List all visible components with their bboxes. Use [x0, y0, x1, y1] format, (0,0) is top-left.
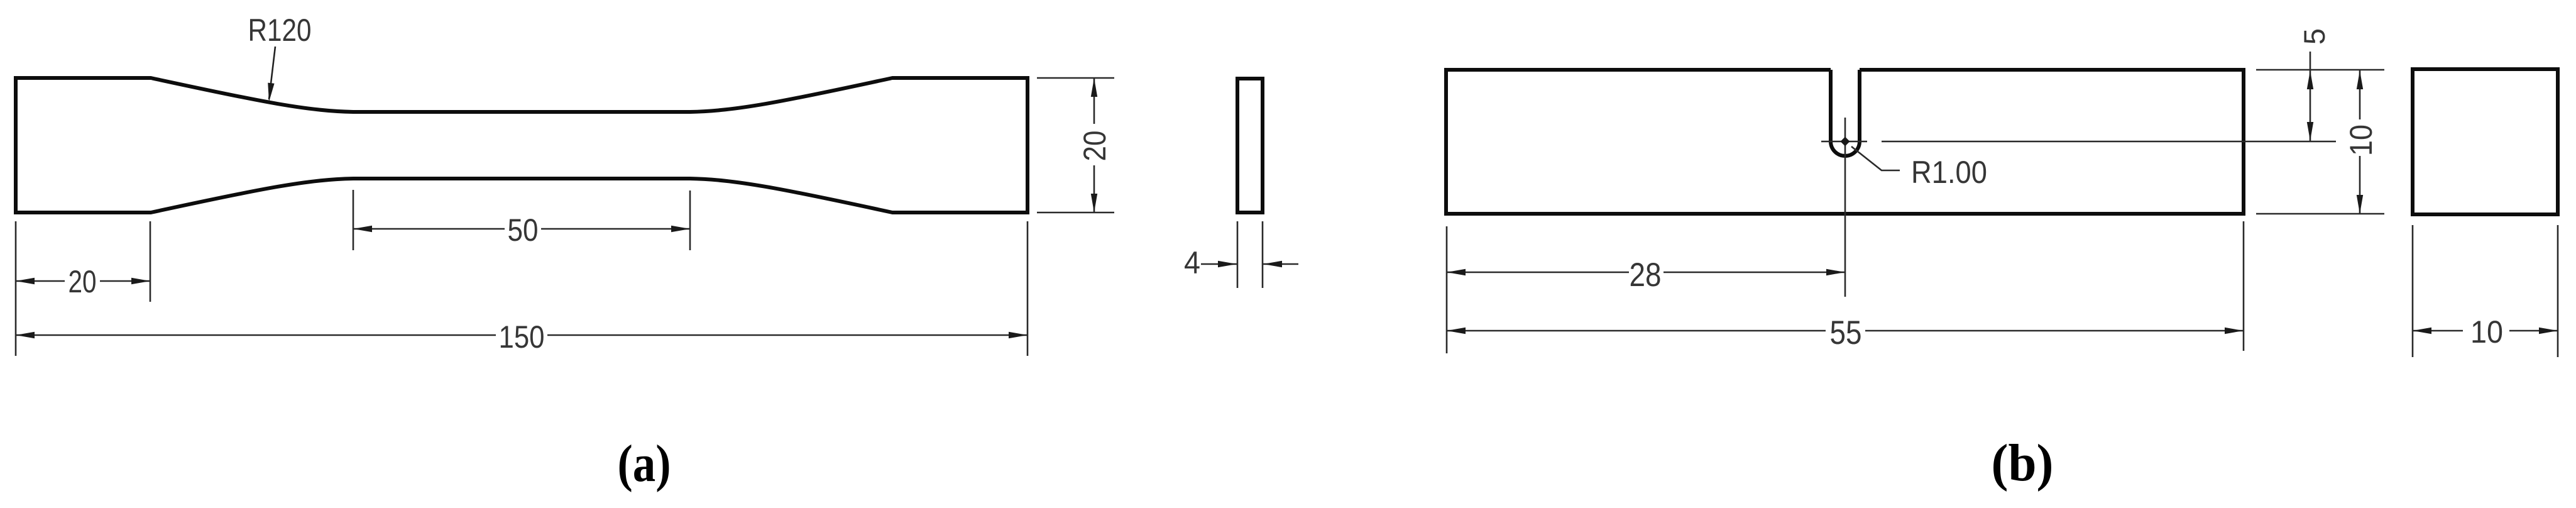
notch crosshair horizontal: [1821, 141, 1867, 143]
extension line left of specimen a: [15, 221, 17, 356]
R120 leader arrowhead: [266, 83, 275, 102]
dimension 150 line segments: [16, 334, 1028, 336]
main outline with notch gap: [1446, 70, 2244, 214]
svg-text:R1.00: R1.00: [1911, 155, 1987, 190]
dimension 10 arrowheads: [2357, 70, 2363, 89]
extension line bottom right of b: [2256, 213, 2384, 215]
dimension 20 line segments: [16, 280, 150, 282]
dimension 50 arrowheads: [353, 226, 372, 232]
side view right extension line: [1262, 221, 1264, 288]
svg-text:10: 10: [2343, 124, 2379, 156]
svg-text:5: 5: [2298, 28, 2331, 45]
dimension 50 line segments: [353, 228, 690, 230]
svg-text:4: 4: [1184, 245, 1200, 280]
svg-text:10: 10: [2470, 314, 2503, 350]
extension line at grip end x=239: [150, 221, 151, 302]
svg-text:(a): (a): [618, 434, 671, 493]
extension line left of b: [1446, 226, 1448, 353]
extension line right of b: [2243, 221, 2245, 351]
dimension 5 arrowheads: [2307, 70, 2313, 89]
extension line top right of grip: [1037, 77, 1114, 79]
extension line from notch bottom to the 5 dim: [1882, 141, 2336, 143]
end view left extension line: [2412, 225, 2414, 357]
extension line bottom right of grip: [1037, 212, 1114, 214]
vertical dimension 20 arrowheads: [1091, 78, 1097, 97]
svg-text:20: 20: [69, 264, 97, 299]
dimension 55 arrowheads: [1447, 328, 1466, 334]
svg-text:R120: R120: [248, 13, 312, 48]
svg-text:28: 28: [1630, 257, 1662, 294]
thickness dimension arrowheads: [1218, 261, 1237, 267]
thickness dimension 4 tail lines: [1201, 263, 1298, 265]
dogbone outline: [16, 78, 1028, 213]
svg-text:150: 150: [499, 319, 545, 355]
dimension 10 line segments: [2359, 70, 2361, 214]
extension line top right of b: [2256, 69, 2384, 71]
notch centerline vertical: [1844, 118, 1846, 297]
svg-text:20: 20: [1077, 131, 1112, 162]
end view dimension 10 arrowheads: [2413, 328, 2431, 334]
R1.00 leader polyline: [1851, 146, 1900, 170]
side view left extension line: [1237, 221, 1239, 288]
dimension 150 arrowheads: [16, 332, 35, 338]
svg-text:55: 55: [1830, 314, 1862, 351]
dimension 55 line segments: [1447, 330, 2244, 332]
extension line gauge right x=1098: [689, 190, 691, 250]
svg-text:50: 50: [508, 213, 539, 248]
R120 leader line: [269, 47, 275, 99]
notch walls and radius: [1831, 70, 1860, 156]
vertical dimension 20 line segments: [1093, 78, 1095, 213]
dimension 5 line: [2310, 52, 2311, 141]
end view right extension line: [2557, 225, 2559, 357]
notch center dot: [1841, 137, 1850, 146]
extension line gauge left x=562: [353, 190, 354, 250]
dimension 28 arrowheads: [1447, 269, 1466, 275]
dimension 28 line segments: [1447, 272, 1845, 273]
end view dimension 10 line segments: [2413, 330, 2558, 332]
extension line right end of a: [1027, 221, 1029, 356]
dimension 20 arrowheads: [16, 278, 35, 284]
end view square: [2413, 69, 2558, 214]
svg-text:(b): (b): [1992, 434, 2054, 492]
side view rectangle: [1237, 79, 1263, 213]
